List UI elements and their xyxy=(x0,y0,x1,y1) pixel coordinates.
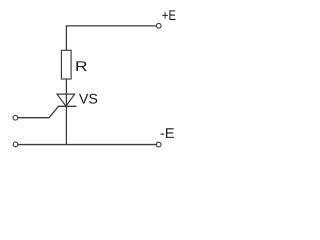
label VS xyxy=(79,94,97,104)
wire gate: horizontal then diagonal to thyristor gate xyxy=(18,106,59,117)
label R xyxy=(76,61,86,71)
terminal +E circle xyxy=(156,23,161,28)
thyristor VS cathode bar xyxy=(58,105,77,107)
wire top rail from resistor branch to +E terminal xyxy=(66,25,156,27)
thyristor VS triangle xyxy=(57,94,75,106)
label +E xyxy=(162,10,175,20)
wire from resistor to thyristor anode xyxy=(65,79,67,107)
gate terminal circle xyxy=(13,115,18,120)
terminal bottom-left circle xyxy=(13,142,18,147)
terminal -E circle xyxy=(156,142,161,147)
resistor R xyxy=(61,50,71,79)
wire bottom rail xyxy=(18,144,156,146)
wire thyristor cathode down to bottom rail xyxy=(65,106,67,144)
wire from top rail down to resistor R xyxy=(65,25,67,50)
label -E xyxy=(161,128,174,138)
